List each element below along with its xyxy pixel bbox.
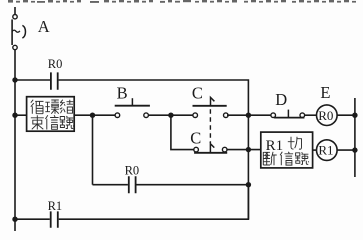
contact B stem: [131, 98, 133, 106]
node: branch to lower C rung: [168, 113, 173, 118]
wire: coil R1 to right rail: [337, 149, 355, 151]
coil R1: [317, 140, 338, 161]
svg-text:R1: R1: [48, 199, 63, 213]
pseudo-glyph 結: [60, 100, 74, 114]
contact C upper (NO) left terminal: [193, 113, 198, 118]
wire: left rail: [14, 50, 16, 231]
cropped caption text row (top edge): [8, 0, 356, 3]
pseudo-glyph 循: [31, 100, 44, 114]
contact C upper right terminal: [224, 113, 229, 118]
svg-text:C: C: [190, 128, 201, 147]
contact R0 (relay contact, top rung): [51, 72, 58, 89]
switch A top terminal: [13, 15, 17, 19]
wire: R0 lower rung left: [93, 184, 128, 186]
node: main rung / vertical bus junction: [246, 113, 251, 118]
contact B (pushbutton NO) left terminal: [115, 113, 120, 118]
wire: R0 rung left: [15, 79, 50, 81]
contact C lower (NC) left terminal: [194, 147, 199, 152]
node: right rail / R0 rung: [352, 113, 357, 118]
wire: left rail top feed: [14, 7, 16, 14]
contact B right terminal: [144, 113, 149, 118]
node: rail / R0 rung junction: [12, 77, 17, 82]
pseudo-glyph 信(2): [280, 152, 293, 166]
wire: drop from C junction to lower C rung: [171, 115, 194, 149]
pseudo-glyph 號: [60, 116, 74, 129]
wire: B to C junction: [148, 114, 193, 116]
pseudo-glyph 切: [288, 137, 302, 150]
wire: D to coil R0: [305, 114, 317, 116]
switch A arm: [11, 19, 13, 45]
contact R0 (lower rung): [129, 176, 136, 193]
contact D bar: [274, 117, 304, 119]
contact D right terminal: [300, 113, 305, 118]
contact C upper bar: [193, 105, 227, 107]
contact C lower flag: [210, 144, 214, 153]
wire: right rail: [354, 98, 356, 177]
box: R1 cut-off-signal label box: [261, 132, 313, 168]
svg-text:C: C: [192, 83, 203, 102]
svg-text:R1: R1: [318, 143, 333, 158]
pseudo-glyph 環: [45, 100, 59, 114]
mechanical link (dashed): [209, 109, 211, 143]
pseudo-glyph 束: [31, 115, 44, 129]
svg-text:R1: R1: [266, 138, 284, 154]
svg-text:E: E: [320, 83, 330, 102]
switch A actuator arc: [22, 25, 25, 38]
node: vertical bus / R0 lower rung: [246, 182, 251, 187]
coil R0: [317, 105, 338, 126]
svg-text:A: A: [38, 17, 50, 36]
contact C lower right terminal: [222, 147, 227, 152]
node: branch to lower R0 rung: [90, 113, 95, 118]
svg-text:R0: R0: [48, 57, 63, 71]
wire: drop from B junction to R0 lower rung: [92, 115, 94, 185]
svg-text:B: B: [117, 84, 128, 103]
node: lower rung / vertical bus junction: [246, 147, 251, 152]
pseudo-glyph 號(2): [295, 152, 309, 164]
wire: R1 box to coil R1: [313, 149, 317, 151]
contact R1 (bottom rung): [51, 211, 58, 227]
pseudo-glyph 信: [45, 115, 58, 129]
svg-text:R0: R0: [318, 108, 333, 123]
svg-text:D: D: [275, 90, 287, 109]
wire: bottom rung left: [15, 218, 50, 220]
switch A bottom terminal: [13, 45, 17, 49]
wire: lower C to R1 box: [227, 149, 261, 151]
wire: bottom rung right: [59, 185, 249, 220]
node: rail / bottom rung junction: [12, 217, 17, 222]
wire: main rung from rail to box: [15, 114, 27, 116]
node: rail / main rung junction: [12, 113, 17, 118]
box: cycle-end-signal label box: [27, 97, 75, 132]
contact B bar: [115, 105, 150, 107]
wire: C to D with mid junction: [227, 114, 271, 116]
wire: vertical bus: [247, 115, 249, 219]
switch A actuator tilde: [12, 30, 20, 32]
contact D stem: [287, 110, 289, 118]
wire: coil R0 to right rail: [337, 114, 355, 116]
node: right rail / R1 rung: [352, 147, 357, 152]
contact C lower bar: [194, 152, 227, 154]
wire: R0 rung right + drop to main rung: [59, 80, 249, 115]
wire: R0 lower rung right: [137, 184, 249, 186]
svg-text:R0: R0: [125, 163, 140, 177]
pseudo-glyph 斷: [263, 152, 276, 166]
wire: box to contact B: [74, 114, 115, 116]
contact D (NC) left terminal: [271, 113, 276, 118]
contact C upper flag: [211, 97, 215, 105]
